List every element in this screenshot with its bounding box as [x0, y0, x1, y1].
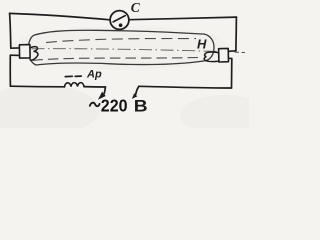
wire left vertical lower (bottom pin down to bottom wire) [9, 55, 11, 86]
lamp cap left [19, 45, 30, 59]
wire top-right: starter to top-right corner [129, 17, 237, 20]
wire choke to left supply terminal [84, 87, 105, 94]
wire top-left: from corner down-sloping right to starter [10, 13, 110, 19]
wire pin stub bottom-right [228, 57, 232, 59]
arrow left supply terminal [98, 92, 106, 100]
wire right vertical upper [235, 17, 238, 51]
choke core dash 1 [65, 75, 72, 77]
lamp tube EL outline [28, 30, 214, 65]
wire bottom-left horizontal to choke [10, 85, 64, 88]
wire pin stub top-left [11, 47, 20, 49]
filament electrode left [30, 47, 38, 61]
starter S (circle) [110, 11, 129, 30]
wire right supply terminal hook [136, 86, 139, 94]
arrow right supply terminal [132, 93, 138, 99]
choke inductor humps [65, 83, 85, 87]
wire bottom-right horizontal to supply terminal [139, 86, 232, 88]
svg-text:В: В [134, 97, 148, 115]
tube upper dashed line [46, 39, 196, 43]
filament electrode right [204, 52, 218, 61]
wire pin stub top-right [228, 50, 236, 53]
choke core dash 2 [75, 75, 81, 77]
tube centerline dash-dot [32, 49, 231, 52]
svg-text:220: 220 [101, 95, 128, 115]
starter dot [119, 23, 123, 27]
lamp cap right [219, 48, 229, 62]
tube lower dashed line [33, 57, 202, 60]
svg-text:Ap: Ap [86, 69, 102, 81]
wire left vertical upper (top wire corner down to lamp top pin) [10, 13, 11, 48]
wire pin stub bottom-left [10, 54, 19, 56]
wire right vertical lower [231, 59, 233, 89]
svg-text:C: C [131, 0, 141, 15]
starter contact diagonal [113, 16, 125, 22]
svg-text:H: H [197, 37, 207, 52]
label ~220 V [90, 103, 100, 107]
